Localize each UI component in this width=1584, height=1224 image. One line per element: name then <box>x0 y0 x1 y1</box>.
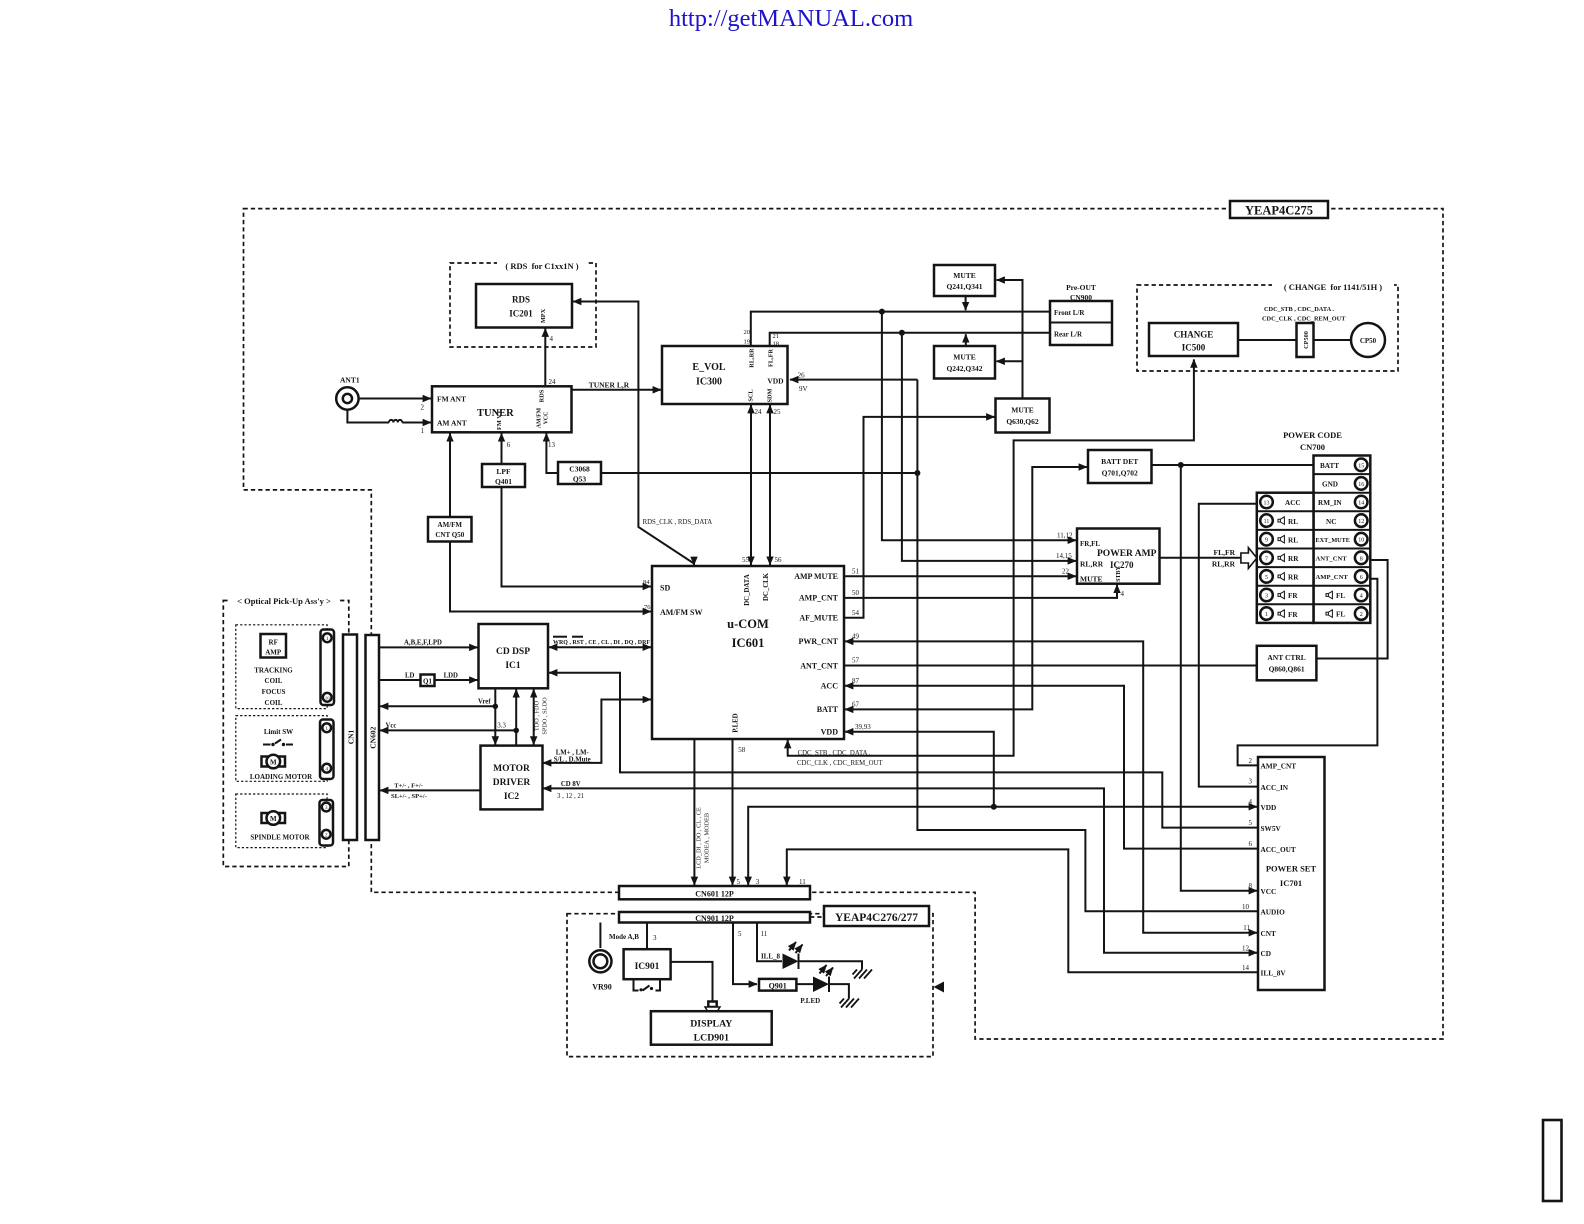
svg-text:RL: RL <box>1288 518 1298 526</box>
svg-text:( RDS for C1xx1N ): ( RDS for C1xx1N ) <box>505 261 578 271</box>
wire VR90 to CN901 <box>600 923 639 949</box>
svg-text:Front L/R: Front L/R <box>1054 309 1085 317</box>
wire E_VOL SDM pin25 to u-COM DC_CLK pin56 <box>770 405 782 565</box>
svg-text:25: 25 <box>774 408 782 416</box>
tuner TUNER <box>421 386 572 435</box>
ic CD DSP IC1 <box>479 624 549 688</box>
svg-text:RF: RF <box>269 639 278 647</box>
wire E_VOL SCL pin24 to u-COM DC_DATA pin55 <box>742 405 762 565</box>
wire CN901 pin5 to Q901 <box>733 923 757 985</box>
led ILL_8 <box>761 942 803 969</box>
optical sub-box limit SW loading motor <box>236 716 327 782</box>
wire IC901 pin3 <box>647 923 657 949</box>
wire CN700 ANT_CNT pin8 to ANT CTRL <box>1317 560 1387 659</box>
svg-text:AMP MUTE: AMP MUTE <box>794 572 838 581</box>
wire TUNER pin24 MPX to RDS <box>545 329 556 387</box>
svg-text:RDS_CLK , RDS_DATA: RDS_CLK , RDS_DATA <box>643 519 713 526</box>
svg-text:Q701,Q702: Q701,Q702 <box>1102 469 1138 478</box>
svg-text:TDO , FDO: TDO , FDO <box>534 700 541 731</box>
connector pickup 1 <box>321 630 335 706</box>
wire mute chain vertical Q241 Q242 Q630 <box>997 280 1023 399</box>
svg-text:57: 57 <box>852 657 860 665</box>
svg-text:M: M <box>270 759 277 767</box>
ic E_VOL IC300 <box>662 346 788 404</box>
svg-text:AMP: AMP <box>265 649 282 657</box>
svg-text:FR: FR <box>1288 592 1298 600</box>
svg-text:5: 5 <box>1249 819 1253 827</box>
wire Vref CD DSP to motor driver and CN602 <box>380 688 498 744</box>
junction BATT trunk <box>1178 462 1184 468</box>
svg-text:9: 9 <box>1265 538 1268 544</box>
svg-text:50: 50 <box>852 589 860 597</box>
svg-text:1: 1 <box>421 427 425 435</box>
display DISPLAY LCD901 <box>651 1011 772 1044</box>
svg-text:3: 3 <box>1265 594 1268 600</box>
transistor C3068 Q53 <box>558 462 601 484</box>
svg-text:FOCUS: FOCUS <box>262 688 286 696</box>
transistor ANT CTRL Q860,Q861 <box>1257 646 1317 681</box>
svg-text:CP500: CP500 <box>1303 331 1310 349</box>
svg-text:IC300: IC300 <box>696 377 722 388</box>
svg-text:4: 4 <box>1360 594 1363 600</box>
svg-text:AMP_CNT: AMP_CNT <box>1316 574 1349 581</box>
svg-text:56: 56 <box>775 556 783 564</box>
box YEAP4C275 <box>1230 201 1328 218</box>
svg-text:LCD_DI , DO , CL , CE: LCD_DI , DO , CL , CE <box>696 807 703 869</box>
svg-text:POWER SET: POWER SET <box>1266 864 1317 874</box>
svg-text:ILL_8V: ILL_8V <box>1261 969 1287 978</box>
svg-text:MUTE: MUTE <box>1011 406 1034 415</box>
page url header <box>669 5 913 32</box>
wire CD DSP A,B,E,F,LPD from CN602 <box>379 640 478 648</box>
svg-text:3: 3 <box>653 934 657 942</box>
svg-text:CN901 12P: CN901 12P <box>695 914 734 923</box>
marker triangle display edge <box>934 982 945 993</box>
svg-text:P.LED: P.LED <box>800 997 820 1005</box>
svg-text:TUNER L,R: TUNER L,R <box>589 380 630 389</box>
svg-text:Q901: Q901 <box>769 981 787 990</box>
svg-text:AM/FM: AM/FM <box>537 407 543 428</box>
svg-text:u-COM: u-COM <box>727 617 769 631</box>
svg-text:IC901: IC901 <box>635 962 660 972</box>
wire 9V to E_VOL VDD pin26 <box>790 372 917 394</box>
svg-text:15: 15 <box>1358 463 1364 469</box>
wire CP500 to CP50 <box>1314 339 1352 341</box>
svg-text:ACC: ACC <box>1285 499 1301 507</box>
svg-text:CD DSP: CD DSP <box>496 647 530 657</box>
connector CN901 12P <box>619 912 810 923</box>
svg-text:PWR_CNT: PWR_CNT <box>798 637 838 646</box>
svg-text:11: 11 <box>1264 519 1270 525</box>
svg-text:Q401: Q401 <box>495 477 512 486</box>
optical sub-box spindle motor <box>236 794 327 848</box>
svg-text:IC1: IC1 <box>505 661 521 671</box>
svg-text:11: 11 <box>1243 924 1250 932</box>
svg-text:39,93: 39,93 <box>855 723 871 731</box>
svg-text:< Optical Pick-Up Ass'y >: < Optical Pick-Up Ass'y > <box>237 596 331 606</box>
svg-text:IC601: IC601 <box>732 636 765 650</box>
svg-text:AF_MUTE: AF_MUTE <box>799 614 838 623</box>
svg-text:SPDO , SLDO: SPDO , SLDO <box>542 697 549 735</box>
svg-text:20: 20 <box>744 329 751 336</box>
svg-text:FL: FL <box>1336 611 1345 619</box>
ic MOTOR DRIVER IC2 <box>481 746 543 810</box>
svg-text:CN601 12P: CN601 12P <box>695 890 734 899</box>
junction Rear line <box>899 330 905 336</box>
svg-text:13: 13 <box>1264 501 1270 507</box>
svg-text:CNT Q50: CNT Q50 <box>435 531 464 539</box>
svg-text:ACC_IN: ACC_IN <box>1261 783 1289 792</box>
svg-text:A,B,E,F,LPD: A,B,E,F,LPD <box>404 640 442 647</box>
dash link CN901 to YEAP4C276 <box>810 916 824 918</box>
svg-text:4: 4 <box>1121 590 1125 598</box>
potentiometer VR90 <box>589 950 611 991</box>
svg-text:24: 24 <box>755 408 763 416</box>
page mark rectangle <box>1543 1120 1562 1201</box>
svg-text:ANT1: ANT1 <box>340 376 360 385</box>
svg-text:AM/FM SW: AM/FM SW <box>660 608 702 617</box>
svg-text:CD 8V: CD 8V <box>561 781 581 788</box>
svg-text:5: 5 <box>1265 575 1268 581</box>
svg-text:IC701: IC701 <box>1280 878 1302 888</box>
svg-text:Q241,Q341: Q241,Q341 <box>946 282 982 291</box>
svg-text:RDS: RDS <box>512 295 530 305</box>
svg-text:LD: LD <box>405 673 415 680</box>
wire CDC bus u-COM pin58area to CHANGE IC500 <box>788 359 1194 767</box>
svg-text:CNT: CNT <box>1261 929 1277 938</box>
svg-text:87: 87 <box>852 677 860 685</box>
connector CN602 <box>366 635 380 840</box>
svg-text:19: 19 <box>744 339 751 346</box>
svg-text:Q242,Q342: Q242,Q342 <box>946 364 982 373</box>
ic POWER SET IC701 <box>1242 757 1325 990</box>
svg-text:2: 2 <box>1249 757 1253 765</box>
svg-text:6: 6 <box>1360 575 1363 581</box>
svg-text:DC_CLK: DC_CLK <box>763 572 770 601</box>
svg-text:SW5V: SW5V <box>1261 824 1282 833</box>
wire POWER AMP output to connector arrow <box>1159 557 1241 559</box>
wire FM ANT <box>359 398 431 400</box>
svg-text:2: 2 <box>421 404 425 412</box>
svg-text:LCD901: LCD901 <box>694 1033 729 1044</box>
svg-text:ILL_8: ILL_8 <box>761 953 781 961</box>
optical sub-box RF AMP tracking focus <box>236 625 327 709</box>
wire LD Q1 LDD <box>379 673 478 681</box>
svg-text:SD: SD <box>660 584 670 593</box>
svg-text:Q860,Q861: Q860,Q861 <box>1269 665 1305 674</box>
wire E_VOL pin18/21 to Rear L/R <box>770 333 1050 348</box>
svg-text:DRIVER: DRIVER <box>493 778 531 788</box>
svg-text:MUTE: MUTE <box>953 271 976 280</box>
svg-text:POWER AMP: POWER AMP <box>1097 549 1157 559</box>
wire LPF to tuner pin6 <box>502 433 511 464</box>
svg-text:Vcc: Vcc <box>386 723 397 730</box>
transistor Q901 <box>759 979 796 991</box>
wire CHANGE to CP500 <box>1238 339 1297 341</box>
wire C3068 9V line <box>601 472 917 474</box>
wire AM ANT with coil <box>347 410 431 423</box>
connector pickup 3 <box>320 800 334 846</box>
wire u-COM P.LED pin58 to CN601 pin5 <box>733 740 746 886</box>
svg-text:S/L , D.Mute: S/L , D.Mute <box>554 756 591 763</box>
svg-text:E_VOL: E_VOL <box>692 362 725 373</box>
dashed box display unit <box>567 914 933 1057</box>
svg-text:55: 55 <box>742 556 750 564</box>
svg-text:Rear L/R: Rear L/R <box>1054 331 1083 339</box>
ic POWER AMP IC270 <box>1077 529 1160 584</box>
svg-text:CDC_CLK , CDC_REM_OUT: CDC_CLK , CDC_REM_OUT <box>797 760 883 767</box>
svg-text:FR,FL: FR,FL <box>1080 540 1100 548</box>
wire ILL_8 to ground <box>799 961 863 969</box>
svg-text:COIL: COIL <box>265 677 283 685</box>
arrow FL,FR RL,RR block <box>1212 548 1257 569</box>
ic IC901 <box>624 949 671 991</box>
wire ANT_CNT pin57 to ANT CTRL <box>844 657 1256 666</box>
svg-text:Pre-OUT: Pre-OUT <box>1066 283 1096 292</box>
label POWER CODE CN700 <box>1283 430 1342 452</box>
connector CP500 <box>1262 306 1346 357</box>
svg-text:http://getMANUAL.com: http://getMANUAL.com <box>669 5 913 32</box>
svg-text:54: 54 <box>852 609 860 617</box>
junction Front line <box>879 309 885 315</box>
wire Rear junction to POWER AMP RL,RR pins 14,15 <box>902 333 1076 561</box>
svg-text:76: 76 <box>644 604 651 611</box>
svg-text:BATT DET: BATT DET <box>1101 457 1138 466</box>
transistor Q1 <box>421 675 435 687</box>
svg-text:SDM: SDM <box>767 388 774 402</box>
connector pickup 2 <box>320 720 334 780</box>
svg-text:YEAP4C276/277: YEAP4C276/277 <box>835 912 918 924</box>
svg-text:Q1: Q1 <box>423 678 432 686</box>
ic CHANGE IC500 <box>1149 323 1238 356</box>
mute MUTE Q630,Q62 <box>996 399 1050 433</box>
svg-text:Q630,Q62: Q630,Q62 <box>1006 417 1039 426</box>
svg-text:VR90: VR90 <box>592 983 612 992</box>
svg-text:BATT: BATT <box>817 705 839 714</box>
dashed box (CHANGE for 1141/51H) <box>1137 280 1398 371</box>
svg-text:VDD: VDD <box>767 377 784 386</box>
svg-text:RL,RR: RL,RR <box>1212 560 1236 569</box>
svg-text:FL,FR: FL,FR <box>768 349 775 367</box>
antenna ANT1 <box>336 376 360 410</box>
wire PWR_CNT pin49 to IC701 CNT pin11 <box>845 633 1257 933</box>
svg-text:4: 4 <box>1249 798 1253 806</box>
svg-text:ANT CTRL: ANT CTRL <box>1267 653 1305 662</box>
main outer dashed boundary <box>244 209 1444 1039</box>
svg-text:MUTE: MUTE <box>1080 575 1103 584</box>
led P.LED <box>800 965 833 1005</box>
connector CN700 left column <box>1257 493 1314 623</box>
wire LPF to u-COM SD pin84 <box>502 487 652 587</box>
svg-text:10: 10 <box>1242 903 1250 911</box>
svg-text:5: 5 <box>738 930 742 938</box>
svg-text:AUDIO: AUDIO <box>1261 908 1286 917</box>
svg-text:51: 51 <box>852 568 860 576</box>
transistor BATT DET Q701,Q702 <box>1088 450 1152 483</box>
svg-text:Limit SW: Limit SW <box>264 728 293 736</box>
svg-text:10: 10 <box>1358 538 1364 544</box>
svg-text:12: 12 <box>1358 519 1364 525</box>
svg-text:M: M <box>270 815 277 823</box>
svg-text:AMP_CNT: AMP_CNT <box>1261 762 1297 771</box>
transistor AM/FM CNT Q50 <box>428 517 472 542</box>
svg-text:RR: RR <box>1288 555 1299 563</box>
wire E_VOL pin19/20 to Front L/R <box>744 312 1051 346</box>
svg-text:3.3: 3.3 <box>497 723 506 730</box>
svg-text:11: 11 <box>761 930 768 938</box>
svg-text:MPX: MPX <box>540 308 547 323</box>
svg-text:3: 3 <box>1249 778 1253 786</box>
svg-text:FR: FR <box>1288 611 1298 619</box>
svg-text:ANT_CNT: ANT_CNT <box>800 661 838 670</box>
wire BATT DET to CN700 BATT <box>1152 464 1314 466</box>
box YEAP4C276/277 <box>824 906 929 926</box>
wire 9V trunk down to AUDIO of IC701 <box>917 380 1257 912</box>
svg-text:NC: NC <box>1326 518 1336 526</box>
wire P.LED to ground <box>829 984 849 998</box>
svg-text:8: 8 <box>1360 556 1363 562</box>
svg-text:GND: GND <box>1322 481 1338 489</box>
ground ILL_8 <box>853 970 873 979</box>
svg-text:RL,RR: RL,RR <box>749 348 756 368</box>
wire T F SL SP to CN602 <box>380 783 481 801</box>
svg-text:84: 84 <box>643 579 650 586</box>
svg-text:TRACKING: TRACKING <box>254 667 293 675</box>
wire Q901 to P.LED <box>796 983 813 985</box>
svg-text:ANT_CNT: ANT_CNT <box>1316 556 1348 563</box>
wire AF_MUTE pin54 to MUTE Q630 <box>844 417 995 618</box>
svg-text:AMP_CNT: AMP_CNT <box>799 594 839 603</box>
wire RDS_CLK RDS_DATA <box>573 302 712 566</box>
ic RDS IC201 <box>476 284 572 328</box>
dashed box (RDS for C1xx1N) <box>450 258 596 347</box>
svg-text:10: 10 <box>325 696 330 701</box>
dashed box Optical Pick-Up Ass'y <box>223 594 348 867</box>
svg-text:13: 13 <box>548 441 556 449</box>
svg-text:67: 67 <box>852 701 860 709</box>
svg-text:DISPLAY: DISPLAY <box>690 1019 732 1030</box>
svg-text:11,12: 11,12 <box>1057 532 1073 540</box>
ic u-COM IC601 <box>652 566 844 739</box>
junction VDD tap <box>991 804 997 810</box>
svg-text:CHANGE: CHANGE <box>1174 330 1214 340</box>
svg-text:21: 21 <box>773 333 780 340</box>
svg-text:7: 7 <box>1265 556 1268 562</box>
svg-text:IC270: IC270 <box>1110 560 1134 570</box>
transistor LPF Q401 <box>482 464 525 487</box>
svg-text:14: 14 <box>1242 964 1250 972</box>
wire Vcc motor driver to CD DSP and CN602 <box>380 689 519 745</box>
svg-text:2: 2 <box>1360 612 1363 618</box>
svg-text:T+/- , F+/-: T+/- , F+/- <box>394 783 423 790</box>
svg-text:Mode A,B: Mode A,B <box>609 933 639 941</box>
wire CD 8V IC701 CD pin12 to motor driver <box>543 781 1257 953</box>
wire WRQ bus CD DSP to u-COM <box>549 637 651 648</box>
svg-text:CN700: CN700 <box>1300 442 1325 452</box>
wire tuner pin13 to C3068 <box>546 433 557 473</box>
svg-text:MUTE: MUTE <box>953 353 976 362</box>
wire CN700 AMP_CNT pin6 to IC701 AMP_CNT pin2 <box>1238 579 1378 766</box>
svg-text:CDC_STB , CDC_DATA .: CDC_STB , CDC_DATA . <box>798 750 871 757</box>
svg-text:ACC: ACC <box>821 682 839 691</box>
svg-text:14: 14 <box>1358 501 1364 507</box>
svg-text:BATT: BATT <box>1320 462 1339 470</box>
wire VDD line CN601 pin3 to IC701 VDD pin4 <box>748 807 1257 886</box>
svg-text:VDD: VDD <box>1261 803 1277 812</box>
svg-text:COIL: COIL <box>265 699 283 707</box>
svg-text:58: 58 <box>738 746 746 754</box>
svg-text:1: 1 <box>1265 612 1268 618</box>
svg-text:CN1: CN1 <box>347 729 356 744</box>
wire CN901 pin11 to ILL_8 led <box>757 923 782 962</box>
svg-text:RM_IN: RM_IN <box>1318 499 1342 507</box>
wire CN700 ACC pin13 to IC701 ACC_IN pin3 <box>1199 504 1257 787</box>
mute MUTE Q242,Q342 <box>934 346 995 379</box>
svg-text:STBY: STBY <box>1116 566 1122 582</box>
wire IC901 to display <box>671 962 713 1002</box>
svg-text:8: 8 <box>1249 882 1253 890</box>
svg-text:CDC_CLK , CDC_REM_OUT: CDC_CLK , CDC_REM_OUT <box>1262 316 1346 323</box>
svg-text:IC2: IC2 <box>504 792 520 802</box>
svg-text:FL: FL <box>1336 592 1345 600</box>
svg-text:CDC_STB , CDC_DATA .: CDC_STB , CDC_DATA . <box>1264 306 1334 313</box>
connector display plug <box>705 1002 720 1012</box>
wire Front junction to POWER AMP FR,FL pins 11,12 <box>882 312 1076 541</box>
wire TUNER L,R <box>572 380 662 390</box>
svg-text:CD: CD <box>1261 949 1272 958</box>
wire u-COM LCD bus to CN601 <box>694 740 710 885</box>
svg-text:FM VT: FM VT <box>496 409 503 430</box>
svg-text:3 , 12 , 21: 3 , 12 , 21 <box>557 793 584 800</box>
connector Pre-OUT CN900 <box>1050 283 1112 345</box>
wire ILL_8V CN601 pin11 to IC701 pin14 <box>787 849 1257 972</box>
svg-text:22: 22 <box>1062 568 1070 576</box>
svg-text:4: 4 <box>550 335 554 343</box>
svg-text:CN602: CN602 <box>369 726 378 748</box>
svg-text:POWER CODE: POWER CODE <box>1283 430 1342 440</box>
wire MUTE Q241 down arrow to Front line <box>965 296 967 310</box>
wire LM bus motor driver to u-COM <box>543 700 651 764</box>
svg-text:RDS: RDS <box>539 389 546 402</box>
wire ACC pin87 to IC701 ACC_OUT pin6 <box>845 677 1257 849</box>
svg-text:VCC: VCC <box>544 412 550 425</box>
svg-text:14,15: 14,15 <box>1056 552 1072 560</box>
wire BATT trunk to IC701 VCC pin8 <box>1181 465 1257 891</box>
svg-text:49: 49 <box>852 633 860 641</box>
svg-text:SL+/- , SP+/-: SL+/- , SP+/- <box>391 793 427 800</box>
svg-text:ACC_OUT: ACC_OUT <box>1261 845 1296 854</box>
svg-text:C3068: C3068 <box>569 465 590 474</box>
svg-text:( CHANGE for 1141/51H ): ( CHANGE for 1141/51H ) <box>1284 282 1382 292</box>
wire BATT pin67 to BATT DET <box>845 467 1087 709</box>
svg-text:IC201: IC201 <box>509 309 533 319</box>
svg-text:Q53: Q53 <box>573 475 587 484</box>
svg-text:Vref: Vref <box>478 699 491 706</box>
ground P.LED <box>840 999 860 1008</box>
svg-text:26: 26 <box>798 372 806 380</box>
wire MUTE Q242 up arrow to Rear line <box>965 334 967 346</box>
svg-text:LPF: LPF <box>496 467 511 476</box>
svg-text:6: 6 <box>1249 840 1253 848</box>
svg-text:6: 6 <box>507 441 511 449</box>
svg-text:EXT_MUTE: EXT_MUTE <box>1316 537 1350 544</box>
svg-text:AM/FM: AM/FM <box>438 521 463 529</box>
svg-text:P.LED: P.LED <box>733 713 740 732</box>
wire SW5V IC701 to CD DSP <box>549 673 1257 828</box>
svg-text:9V: 9V <box>799 385 808 393</box>
wire AMP_CNT pin50 to POWER AMP STBY pin4 <box>844 585 1125 598</box>
svg-text:RL,RR: RL,RR <box>1080 560 1104 569</box>
